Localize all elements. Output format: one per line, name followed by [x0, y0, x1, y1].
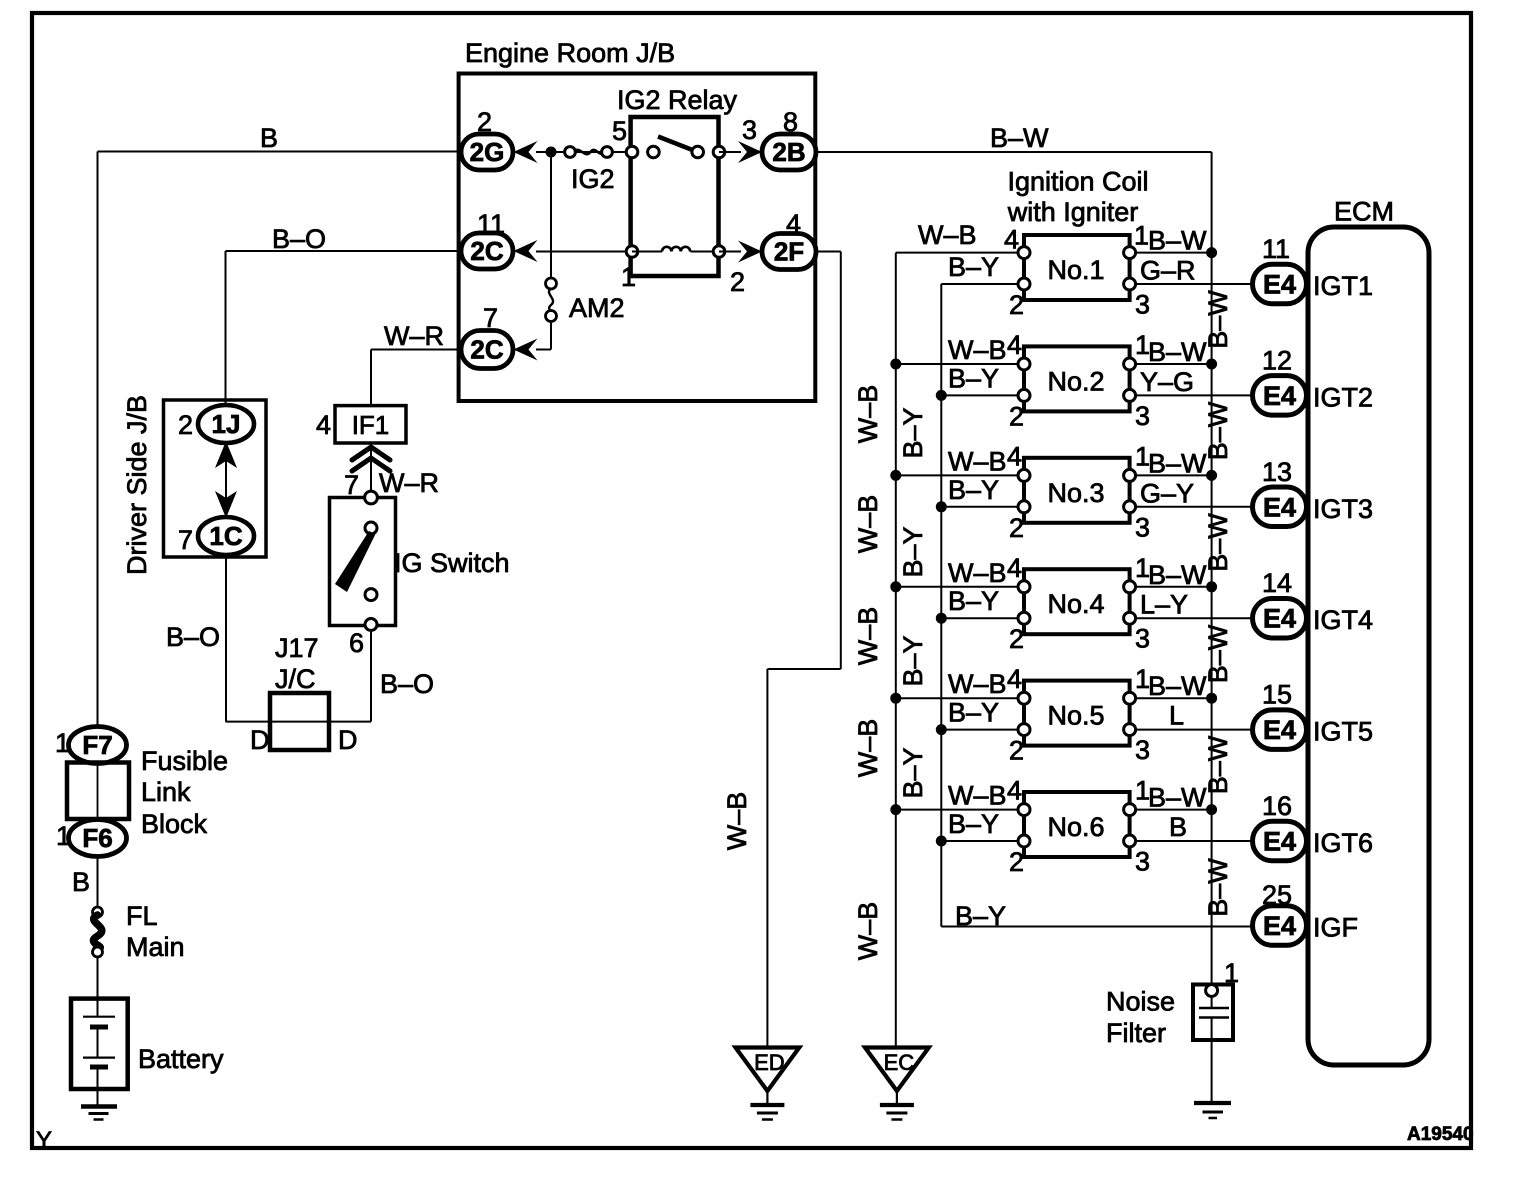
svg-text:IGT4: IGT4 — [1313, 605, 1373, 635]
svg-text:Battery: Battery — [138, 1044, 224, 1074]
svg-text:B–Y: B–Y — [948, 698, 999, 728]
svg-text:2: 2 — [1009, 736, 1024, 766]
svg-text:E4: E4 — [1263, 381, 1296, 411]
svg-text:7: 7 — [178, 525, 193, 555]
svg-text:3: 3 — [1135, 624, 1150, 654]
svg-text:2C: 2C — [470, 236, 503, 266]
svg-text:2: 2 — [1009, 290, 1024, 320]
svg-text:F6: F6 — [82, 823, 112, 853]
svg-text:7: 7 — [344, 470, 359, 500]
svg-text:B: B — [1169, 812, 1187, 842]
svg-text:8: 8 — [783, 107, 798, 137]
svg-text:11: 11 — [477, 209, 505, 239]
svg-text:E4: E4 — [1263, 492, 1296, 522]
svg-text:1: 1 — [55, 728, 70, 758]
svg-text:B–Y: B–Y — [948, 809, 999, 839]
svg-text:ED: ED — [754, 1050, 785, 1075]
svg-text:5: 5 — [612, 116, 627, 146]
svg-text:B–O: B–O — [380, 669, 434, 699]
svg-text:3: 3 — [1135, 847, 1150, 877]
svg-text:W–B: W–B — [853, 607, 883, 666]
svg-text:3: 3 — [1135, 512, 1150, 542]
svg-text:E4: E4 — [1263, 715, 1296, 745]
svg-text:B–W: B–W — [1203, 624, 1233, 683]
svg-text:Fusible: Fusible — [141, 746, 228, 776]
svg-text:IF1: IF1 — [352, 410, 390, 440]
svg-text:Noise: Noise — [1106, 987, 1175, 1017]
svg-text:W–B: W–B — [853, 902, 883, 961]
svg-text:with Igniter: with Igniter — [1007, 197, 1139, 227]
svg-text:W–B: W–B — [722, 792, 752, 851]
svg-text:4: 4 — [1007, 441, 1022, 471]
svg-text:7: 7 — [483, 303, 498, 333]
svg-text:W–B: W–B — [948, 669, 1007, 699]
svg-text:J17: J17 — [275, 633, 319, 663]
svg-text:3: 3 — [1135, 735, 1150, 765]
svg-text:B–W: B–W — [1203, 735, 1233, 794]
svg-text:1: 1 — [621, 262, 636, 292]
svg-text:E4: E4 — [1263, 270, 1296, 300]
svg-text:2F: 2F — [774, 237, 804, 267]
svg-text:1J: 1J — [212, 409, 241, 439]
svg-text:IGF: IGF — [1313, 913, 1358, 943]
svg-text:B–Y: B–Y — [948, 475, 999, 505]
svg-text:B–Y: B–Y — [898, 407, 928, 458]
svg-text:B–W: B–W — [1148, 448, 1207, 478]
svg-text:25: 25 — [1262, 880, 1292, 910]
svg-text:No.2: No.2 — [1047, 366, 1104, 396]
svg-text:3: 3 — [1135, 290, 1150, 320]
svg-text:Link: Link — [141, 777, 191, 807]
svg-text:L–Y: L–Y — [1140, 590, 1188, 620]
svg-text:4: 4 — [1007, 553, 1022, 583]
svg-text:No.1: No.1 — [1047, 255, 1104, 285]
svg-text:A19540: A19540 — [1407, 1124, 1474, 1145]
svg-text:B–W: B–W — [1148, 783, 1207, 813]
svg-text:J/C: J/C — [275, 664, 316, 694]
svg-text:B–W: B–W — [1203, 858, 1233, 917]
svg-text:4: 4 — [1007, 776, 1022, 806]
svg-text:1: 1 — [1134, 221, 1149, 251]
svg-text:IG2 Relay: IG2 Relay — [617, 85, 738, 115]
svg-text:Block: Block — [141, 809, 208, 839]
svg-text:G–Y: G–Y — [1140, 478, 1194, 508]
svg-text:W–B: W–B — [853, 385, 883, 444]
svg-text:Ignition Coil: Ignition Coil — [1007, 167, 1148, 197]
svg-text:12: 12 — [1262, 345, 1292, 375]
svg-text:B: B — [260, 123, 278, 153]
svg-text:B–Y: B–Y — [898, 635, 928, 686]
svg-text:F7: F7 — [82, 730, 112, 760]
svg-text:2: 2 — [1009, 624, 1024, 654]
svg-text:W–B: W–B — [948, 335, 1007, 365]
svg-text:2: 2 — [1009, 401, 1024, 431]
svg-text:B–Y: B–Y — [948, 363, 999, 393]
svg-text:IGT1: IGT1 — [1313, 271, 1373, 301]
svg-text:B–O: B–O — [272, 224, 326, 254]
svg-text:2: 2 — [1009, 513, 1024, 543]
svg-text:IGT6: IGT6 — [1313, 828, 1373, 858]
svg-text:B–Y: B–Y — [955, 901, 1006, 931]
svg-text:No.5: No.5 — [1047, 701, 1104, 731]
svg-text:2: 2 — [730, 267, 745, 297]
svg-text:B–W: B–W — [1148, 226, 1207, 256]
svg-text:16: 16 — [1262, 791, 1292, 821]
svg-text:L: L — [1169, 701, 1184, 731]
svg-text:3: 3 — [742, 115, 757, 145]
svg-text:E4: E4 — [1263, 604, 1296, 634]
svg-text:14: 14 — [1262, 568, 1292, 598]
svg-text:IGT2: IGT2 — [1313, 382, 1373, 412]
svg-text:No.3: No.3 — [1047, 478, 1104, 508]
svg-text:4: 4 — [1004, 225, 1019, 255]
svg-text:2G: 2G — [470, 137, 505, 167]
svg-text:W–R: W–R — [379, 468, 439, 498]
svg-text:11: 11 — [1262, 234, 1290, 264]
svg-text:B–Y: B–Y — [898, 526, 928, 577]
svg-text:W–B: W–B — [948, 781, 1007, 811]
svg-text:4: 4 — [786, 209, 801, 239]
svg-text:Main: Main — [126, 932, 185, 962]
svg-text:IG Switch: IG Switch — [394, 548, 510, 578]
svg-text:G–R: G–R — [1140, 256, 1196, 286]
svg-text:AM2: AM2 — [569, 293, 625, 323]
svg-text:B–W: B–W — [1203, 290, 1233, 349]
svg-text:IG2: IG2 — [571, 164, 615, 194]
svg-text:2: 2 — [477, 107, 492, 137]
svg-text:Engine Room J/B: Engine Room J/B — [465, 38, 675, 68]
svg-text:4: 4 — [1007, 330, 1022, 360]
svg-text:13: 13 — [1262, 457, 1292, 487]
svg-text:No.4: No.4 — [1047, 589, 1104, 619]
svg-text:1C: 1C — [209, 521, 242, 551]
svg-text:2B: 2B — [772, 137, 805, 167]
svg-text:2C: 2C — [470, 335, 503, 365]
svg-text:W–B: W–B — [918, 220, 977, 250]
svg-text:Y: Y — [36, 1127, 52, 1154]
svg-text:D: D — [338, 725, 358, 755]
svg-text:E4: E4 — [1263, 911, 1296, 941]
svg-text:Filter: Filter — [1106, 1018, 1166, 1048]
svg-text:B–W: B–W — [1203, 401, 1233, 460]
svg-text:B–W: B–W — [1148, 560, 1207, 590]
svg-text:6: 6 — [349, 628, 364, 658]
svg-text:B–W: B–W — [1148, 337, 1207, 367]
svg-text:W–B: W–B — [948, 446, 1007, 476]
svg-text:B–Y: B–Y — [948, 252, 999, 282]
svg-text:Y–G: Y–G — [1140, 367, 1194, 397]
svg-text:4: 4 — [1007, 664, 1022, 694]
svg-text:EC: EC — [884, 1050, 915, 1075]
svg-text:1: 1 — [56, 821, 71, 851]
svg-text:B–Y: B–Y — [948, 586, 999, 616]
svg-text:15: 15 — [1262, 680, 1292, 710]
svg-text:B–W: B–W — [990, 123, 1049, 153]
svg-text:B–Y: B–Y — [898, 747, 928, 798]
svg-text:2: 2 — [1009, 847, 1024, 877]
svg-text:No.6: No.6 — [1047, 812, 1104, 842]
svg-text:D: D — [250, 725, 270, 755]
svg-text:2: 2 — [178, 410, 193, 440]
svg-text:IGT5: IGT5 — [1313, 717, 1373, 747]
svg-text:3: 3 — [1135, 401, 1150, 431]
svg-text:W–R: W–R — [384, 321, 444, 351]
svg-text:ECM: ECM — [1334, 197, 1394, 227]
svg-text:W–B: W–B — [853, 495, 883, 554]
svg-text:FL: FL — [126, 901, 158, 931]
svg-text:IGT3: IGT3 — [1313, 494, 1373, 524]
svg-text:B–W: B–W — [1148, 671, 1207, 701]
svg-text:B: B — [72, 867, 90, 897]
svg-text:B–O: B–O — [166, 622, 220, 652]
svg-text:4: 4 — [316, 410, 331, 440]
svg-text:E4: E4 — [1263, 827, 1296, 857]
svg-text:W–B: W–B — [948, 558, 1007, 588]
svg-text:Driver Side J/B: Driver Side J/B — [122, 395, 152, 575]
svg-text:W–B: W–B — [853, 719, 883, 778]
svg-text:B–W: B–W — [1203, 513, 1233, 572]
